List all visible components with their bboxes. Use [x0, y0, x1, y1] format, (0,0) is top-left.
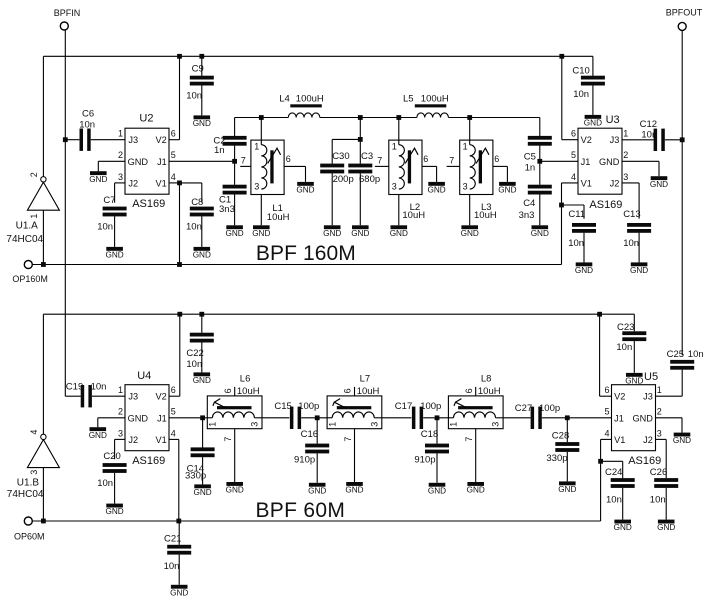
svg-text:GND: GND: [226, 486, 244, 495]
wire C25 to J3: [681, 370, 683, 397]
ground L2 pin3: [391, 225, 408, 229]
wire U1.A input: [42, 210, 44, 264]
svg-text:3: 3: [118, 428, 123, 438]
capacitor C8 10n: [190, 207, 214, 211]
svg-text:1: 1: [118, 385, 123, 395]
ground C30: [324, 225, 341, 229]
wire U3 J2 to C13: [622, 182, 639, 184]
svg-text:L7: L7: [360, 374, 371, 385]
svg-text:3: 3: [491, 422, 501, 427]
svg-text:GND: GND: [193, 376, 211, 385]
svg-text:V1: V1: [581, 179, 592, 189]
svg-text:GND: GND: [193, 251, 211, 260]
ground C24: [614, 520, 631, 524]
wire U2 J2 to C7: [115, 182, 125, 184]
junction node L6 in: [200, 415, 205, 420]
svg-text:7: 7: [464, 437, 474, 442]
svg-text:J3: J3: [610, 135, 620, 145]
ground C9: [194, 115, 211, 119]
wire C23 drop: [633, 314, 635, 331]
wire C4 to gnd: [539, 194, 541, 225]
capacitor C4 3n3: [528, 185, 552, 189]
svg-text:GND: GND: [467, 486, 485, 495]
svg-text:GND: GND: [657, 523, 675, 532]
svg-text:GND: GND: [351, 229, 369, 238]
inductor L8 10uH: [448, 396, 503, 429]
wire U1.A output top rail: [43, 55, 593, 57]
capacitor C9 10n: [190, 76, 214, 80]
svg-text:C24: C24: [605, 467, 622, 478]
terminal BPFOUT: [678, 22, 686, 30]
svg-text:C21: C21: [164, 533, 181, 544]
wire C7 to gnd: [114, 216, 116, 247]
svg-text:4: 4: [571, 172, 576, 182]
svg-text:GND: GND: [575, 266, 593, 275]
svg-text:1n: 1n: [214, 145, 225, 156]
svg-text:GND: GND: [89, 431, 107, 440]
svg-text:10uH: 10uH: [267, 212, 290, 223]
wire C3 gnd: [359, 173, 361, 225]
svg-text:GND: GND: [128, 414, 149, 424]
capacitor C6 10n: [80, 129, 84, 151]
svg-text:3: 3: [254, 181, 259, 191]
svg-text:J2: J2: [128, 179, 138, 189]
ground C20: [106, 504, 123, 508]
wire OP160M rail: [32, 264, 561, 266]
svg-text:GND: GND: [614, 523, 632, 532]
capacitor C19 10n: [81, 385, 85, 407]
wire U5 V1 node: [601, 438, 612, 440]
svg-text:J3: J3: [128, 392, 138, 402]
junction OP160M/U2-V1: [177, 262, 182, 267]
ground C18: [429, 483, 446, 487]
wire L6 pin7 gnd: [234, 429, 236, 482]
ground U5 pin2: [674, 433, 691, 437]
svg-text:J3: J3: [643, 392, 653, 402]
wire C13 gnd: [638, 233, 640, 263]
junction rail/U2-V2: [177, 54, 182, 59]
svg-text:10n: 10n: [186, 90, 202, 101]
wire L8 pin7 gnd: [475, 429, 477, 482]
wire U4 V2 to rail: [169, 395, 180, 397]
ground L8 pin7: [467, 482, 484, 486]
svg-text:AS169: AS169: [132, 455, 165, 467]
wire C28 drop: [566, 418, 568, 442]
svg-text:C22: C22: [186, 348, 203, 359]
wire C18 drop: [436, 418, 438, 444]
wire C27 to U5: [542, 417, 612, 419]
wire L2 pin3 gnd: [398, 195, 400, 226]
svg-text:10n: 10n: [186, 359, 202, 370]
ground C4: [532, 225, 549, 229]
wire C16 drop: [316, 418, 318, 444]
wire 60M control rail: [43, 313, 634, 315]
svg-text:J2: J2: [610, 179, 620, 189]
wire U3 pin2 gnd: [622, 160, 659, 162]
svg-text:10n: 10n: [641, 129, 657, 140]
svg-text:GND: GND: [105, 507, 123, 516]
ground C8: [194, 247, 211, 251]
svg-text:3: 3: [118, 172, 123, 182]
svg-text:10n: 10n: [97, 221, 113, 232]
capacitor C23 10n: [622, 331, 646, 335]
wire C1 to gnd: [234, 194, 236, 225]
svg-text:GND: GND: [193, 488, 211, 497]
svg-text:3: 3: [657, 428, 662, 438]
svg-text:10n: 10n: [606, 495, 622, 506]
junction node C28: [565, 415, 570, 420]
junction rail/L2: [396, 115, 401, 120]
junction U2 V1: [177, 181, 182, 186]
wire U2 pin2 gnd: [98, 160, 125, 162]
junction rail2/C22: [199, 312, 204, 317]
svg-text:100p: 100p: [539, 403, 560, 414]
ground U2 pin2: [90, 171, 107, 175]
svg-text:V1: V1: [614, 435, 625, 445]
ground U3 pin2: [651, 176, 668, 180]
svg-text:4: 4: [171, 172, 176, 182]
inverter U1.A 74HC04: [27, 182, 59, 210]
wire C24 gnd: [622, 488, 624, 520]
ground C26: [658, 520, 675, 524]
svg-text:10uH: 10uH: [402, 210, 425, 221]
wire U3 V2 to rail: [562, 139, 578, 141]
svg-text:1: 1: [463, 141, 468, 151]
wire C30 C3 tap: [359, 118, 361, 164]
svg-text:330p: 330p: [546, 453, 567, 464]
capacitor C3 680p: [348, 164, 372, 168]
svg-text:BPFIN: BPFIN: [54, 8, 81, 18]
svg-text:10uH: 10uH: [357, 386, 380, 397]
wire U3 V1 node: [562, 182, 579, 184]
svg-text:6: 6: [171, 385, 176, 395]
svg-text:J1: J1: [614, 414, 624, 424]
junction node C16: [315, 415, 320, 420]
svg-text:680p: 680p: [359, 174, 380, 185]
svg-text:C25: C25: [667, 349, 684, 360]
wire L2 pin6 gnd: [422, 165, 437, 167]
capacitor C7 10n: [103, 207, 127, 211]
svg-text:C10: C10: [572, 65, 589, 76]
wire U3 J1 in: [540, 160, 578, 162]
svg-text:5: 5: [571, 150, 576, 160]
wire U2 J1 out: [169, 160, 235, 162]
inductor L6 10uH: [207, 396, 262, 429]
svg-text:74HC04: 74HC04: [7, 489, 44, 500]
wire L6 to C15: [262, 417, 289, 419]
wire C30 gnd: [331, 173, 333, 225]
wire C17 to L8: [423, 417, 448, 419]
svg-text:C27: C27: [515, 403, 532, 414]
junction OP60M/U4-V1: [176, 519, 181, 524]
svg-text:74HC04: 74HC04: [6, 234, 43, 245]
wire L7 pin7 gnd: [354, 429, 356, 482]
terminal BPFIN: [60, 22, 68, 30]
svg-text:6: 6: [423, 154, 428, 164]
svg-text:U4: U4: [137, 370, 151, 382]
junction OP60M/U1B: [41, 519, 46, 524]
svg-text:10n: 10n: [623, 238, 639, 249]
svg-text:10uH: 10uH: [237, 386, 260, 397]
svg-text:C30: C30: [332, 151, 349, 162]
svg-text:100uH: 100uH: [421, 93, 449, 104]
wire BPFOUT vertical: [681, 30, 683, 355]
svg-text:GND: GND: [128, 157, 149, 167]
junction toprail/U3-V2: [559, 54, 564, 59]
svg-text:J2: J2: [643, 435, 653, 445]
ground C11: [576, 262, 593, 266]
capacitor C20 10n: [103, 463, 127, 467]
svg-text:GND: GND: [390, 229, 408, 238]
svg-text:100p: 100p: [298, 401, 319, 412]
svg-text:6: 6: [286, 154, 291, 164]
svg-text:AS169: AS169: [628, 455, 661, 467]
svg-text:U1.B: U1.B: [17, 477, 40, 488]
ground L3 pin6: [499, 182, 516, 186]
wire U2 V1 node: [169, 182, 180, 184]
wire C6 leads: [65, 139, 79, 141]
wire C12 to BPFOUT: [665, 139, 682, 141]
wire L1 pin6 gnd: [284, 165, 305, 167]
svg-text:V2: V2: [156, 135, 167, 145]
wire U2 V2 to rail: [169, 139, 180, 141]
wire L1 pin7 stub: [240, 165, 251, 167]
ground L1 pin6: [297, 182, 314, 186]
op-amp U4 AS169 switch: [125, 385, 169, 451]
svg-text:3: 3: [463, 181, 468, 191]
svg-text:10n: 10n: [186, 222, 202, 233]
svg-text:C26: C26: [650, 467, 667, 478]
capacitor C27 100p: [531, 407, 535, 429]
junction rail/L1: [259, 115, 264, 120]
capacitor C10 10n: [581, 76, 605, 80]
svg-text:GND: GND: [427, 186, 445, 195]
junction node C18: [435, 415, 440, 420]
svg-text:1n: 1n: [525, 163, 536, 174]
wire L1 pin3 gnd: [260, 195, 262, 226]
svg-text:V1: V1: [156, 179, 167, 189]
svg-text:V2: V2: [156, 392, 167, 402]
svg-text:U2: U2: [139, 112, 153, 124]
svg-text:10n: 10n: [616, 342, 632, 353]
svg-text:AS169: AS169: [132, 198, 165, 210]
wire L3 pin3 gnd: [469, 195, 471, 226]
svg-text:3: 3: [250, 422, 260, 427]
svg-text:6: 6: [571, 129, 576, 139]
svg-text:GND: GND: [558, 485, 576, 494]
svg-text:7: 7: [377, 156, 382, 166]
op-amp U5 AS169 switch: [612, 385, 656, 451]
terminal OP60M: [24, 517, 32, 525]
svg-text:J1: J1: [581, 157, 591, 167]
junction rail/C9: [199, 54, 204, 59]
svg-text:7: 7: [343, 437, 353, 442]
terminal OP160M: [24, 261, 32, 269]
svg-text:10n: 10n: [164, 561, 180, 572]
capacitor C16 910p: [305, 444, 329, 448]
svg-text:J2: J2: [128, 435, 138, 445]
wire L8 to C27: [503, 417, 530, 419]
junction U5 V1: [598, 459, 603, 464]
wire C2 to node: [234, 146, 236, 185]
transformer L3 10uH: [460, 140, 493, 194]
wire U4 V1 node: [169, 438, 179, 440]
ground L3 pin3: [461, 225, 478, 229]
wire U4 J2 to C20: [115, 438, 125, 440]
svg-text:BPFOUT: BPFOUT: [666, 8, 703, 18]
svg-text:U3: U3: [606, 114, 620, 126]
transformer L2 10uH: [389, 140, 422, 194]
svg-text:1: 1: [392, 141, 397, 151]
junction BPFOUT/C12: [680, 137, 685, 142]
capacitor C25 10n: [670, 360, 694, 364]
ground C22: [194, 372, 211, 376]
svg-text:2: 2: [657, 407, 662, 417]
svg-text:6: 6: [494, 154, 499, 164]
svg-text:C8: C8: [191, 197, 203, 208]
svg-text:GND: GND: [599, 157, 620, 167]
svg-text:GND: GND: [296, 186, 314, 195]
svg-text:5: 5: [171, 150, 176, 160]
svg-text:10n: 10n: [568, 238, 584, 249]
ground C1: [226, 225, 243, 229]
svg-text:330p: 330p: [185, 471, 206, 482]
ground C16: [309, 483, 326, 487]
svg-text:GND: GND: [428, 486, 446, 495]
svg-text:BPF 60M: BPF 60M: [256, 499, 346, 522]
svg-text:C20: C20: [103, 451, 120, 462]
svg-text:7: 7: [223, 437, 233, 442]
svg-text:C28: C28: [552, 431, 569, 442]
svg-text:10n: 10n: [79, 120, 95, 131]
junction BPFIN/C6: [63, 137, 68, 142]
svg-text:10uH: 10uH: [478, 386, 501, 397]
junction node3 J1: [537, 159, 542, 164]
capacitor C15 100p: [290, 407, 294, 429]
wire U4 pin2 gnd: [98, 417, 125, 419]
wire C11 gnd: [583, 233, 585, 263]
capacitor C24 10n: [611, 478, 635, 482]
wire C14 drop: [202, 418, 204, 448]
ground C28: [559, 481, 576, 485]
svg-text:GND: GND: [308, 486, 326, 495]
ground L2 pin6: [428, 182, 445, 186]
svg-text:200p: 200p: [333, 174, 354, 185]
wire L3 pin6 gnd: [493, 165, 508, 167]
svg-text:2: 2: [623, 150, 628, 160]
svg-text:3: 3: [29, 470, 39, 475]
svg-text:C6: C6: [82, 108, 94, 119]
svg-text:3: 3: [392, 181, 397, 191]
svg-text:OP160M: OP160M: [12, 274, 48, 284]
svg-text:100uH: 100uH: [296, 93, 324, 104]
svg-text:GND: GND: [632, 414, 653, 424]
wire C20 gnd: [114, 473, 116, 504]
junction rail/L3: [467, 115, 472, 120]
svg-text:GND: GND: [625, 377, 643, 386]
wire L2 pin7 stub: [375, 165, 389, 167]
capacitor C14 330p: [191, 447, 215, 451]
svg-text:GND: GND: [630, 266, 648, 275]
svg-text:10n: 10n: [97, 478, 113, 489]
svg-text:C17: C17: [395, 401, 412, 412]
svg-text:5: 5: [604, 407, 609, 417]
svg-text:AS169: AS169: [589, 199, 622, 211]
svg-text:BPF 160M: BPF 160M: [256, 242, 356, 265]
junction rail2/U4-V2: [177, 312, 182, 317]
svg-text:7: 7: [449, 156, 454, 166]
svg-text:C23: C23: [617, 322, 634, 333]
svg-text:C3: C3: [361, 151, 373, 162]
junction node1 J1: [232, 159, 237, 164]
capacitor C13 10n: [627, 223, 651, 227]
capacitor C26 10n: [654, 478, 678, 482]
wire C15 to L7: [301, 417, 327, 419]
svg-text:4: 4: [604, 428, 609, 438]
svg-text:OP60M: OP60M: [14, 531, 45, 541]
svg-text:GND: GND: [89, 175, 107, 184]
svg-text:U5: U5: [644, 371, 658, 383]
svg-text:GND: GND: [193, 119, 211, 128]
svg-text:L4: L4: [279, 93, 290, 104]
capacitor C1 3n3: [223, 185, 247, 189]
junction rail2/U5-V2: [597, 312, 602, 317]
svg-text:GND: GND: [531, 229, 549, 238]
transformer L1 10uH: [251, 140, 284, 194]
svg-text:V2: V2: [614, 392, 625, 402]
capacitor C11 10n: [572, 223, 596, 227]
svg-text:10n: 10n: [573, 89, 589, 100]
wire U5 J2 to C26: [656, 438, 667, 440]
wire U5 V2 to rail: [600, 395, 612, 397]
wire U3 J3 to C12: [622, 139, 654, 141]
ground L6 pin7: [226, 482, 243, 486]
capacitor C12 10n: [654, 129, 658, 151]
wire BPFIN vertical feed: [64, 30, 66, 396]
svg-text:U1.A: U1.A: [16, 220, 39, 231]
svg-text:C13: C13: [623, 209, 640, 220]
junction U3 V1: [559, 203, 564, 208]
svg-text:GND: GND: [105, 251, 123, 260]
svg-text:5: 5: [171, 407, 176, 417]
ground C23: [626, 373, 643, 377]
svg-text:3n3: 3n3: [519, 210, 535, 221]
wire C19 to U4: [92, 395, 125, 397]
wire C26 gnd: [665, 488, 667, 520]
svg-text:GND: GND: [323, 229, 341, 238]
ground C21: [171, 585, 188, 589]
wire U1.B input: [42, 468, 44, 521]
svg-text:4: 4: [171, 428, 176, 438]
svg-text:L8: L8: [481, 374, 492, 385]
wire OP60M rail: [32, 520, 600, 522]
svg-text:C15: C15: [274, 401, 291, 412]
svg-text:GND: GND: [170, 588, 188, 597]
ground C14: [194, 484, 211, 488]
svg-text:7: 7: [241, 155, 246, 165]
op-amp U3 AS169 switch: [578, 128, 622, 194]
capacitor C17 100p: [412, 407, 416, 429]
wire L3 pin7 stub: [447, 165, 460, 167]
svg-text:6: 6: [464, 388, 474, 393]
svg-text:1: 1: [657, 385, 662, 395]
svg-text:6: 6: [604, 385, 609, 395]
svg-text:910p: 910p: [414, 454, 435, 465]
svg-text:J1: J1: [157, 157, 167, 167]
svg-text:GND: GND: [252, 229, 270, 238]
capacitor C22 10n: [190, 333, 214, 337]
svg-text:C4: C4: [523, 198, 535, 209]
